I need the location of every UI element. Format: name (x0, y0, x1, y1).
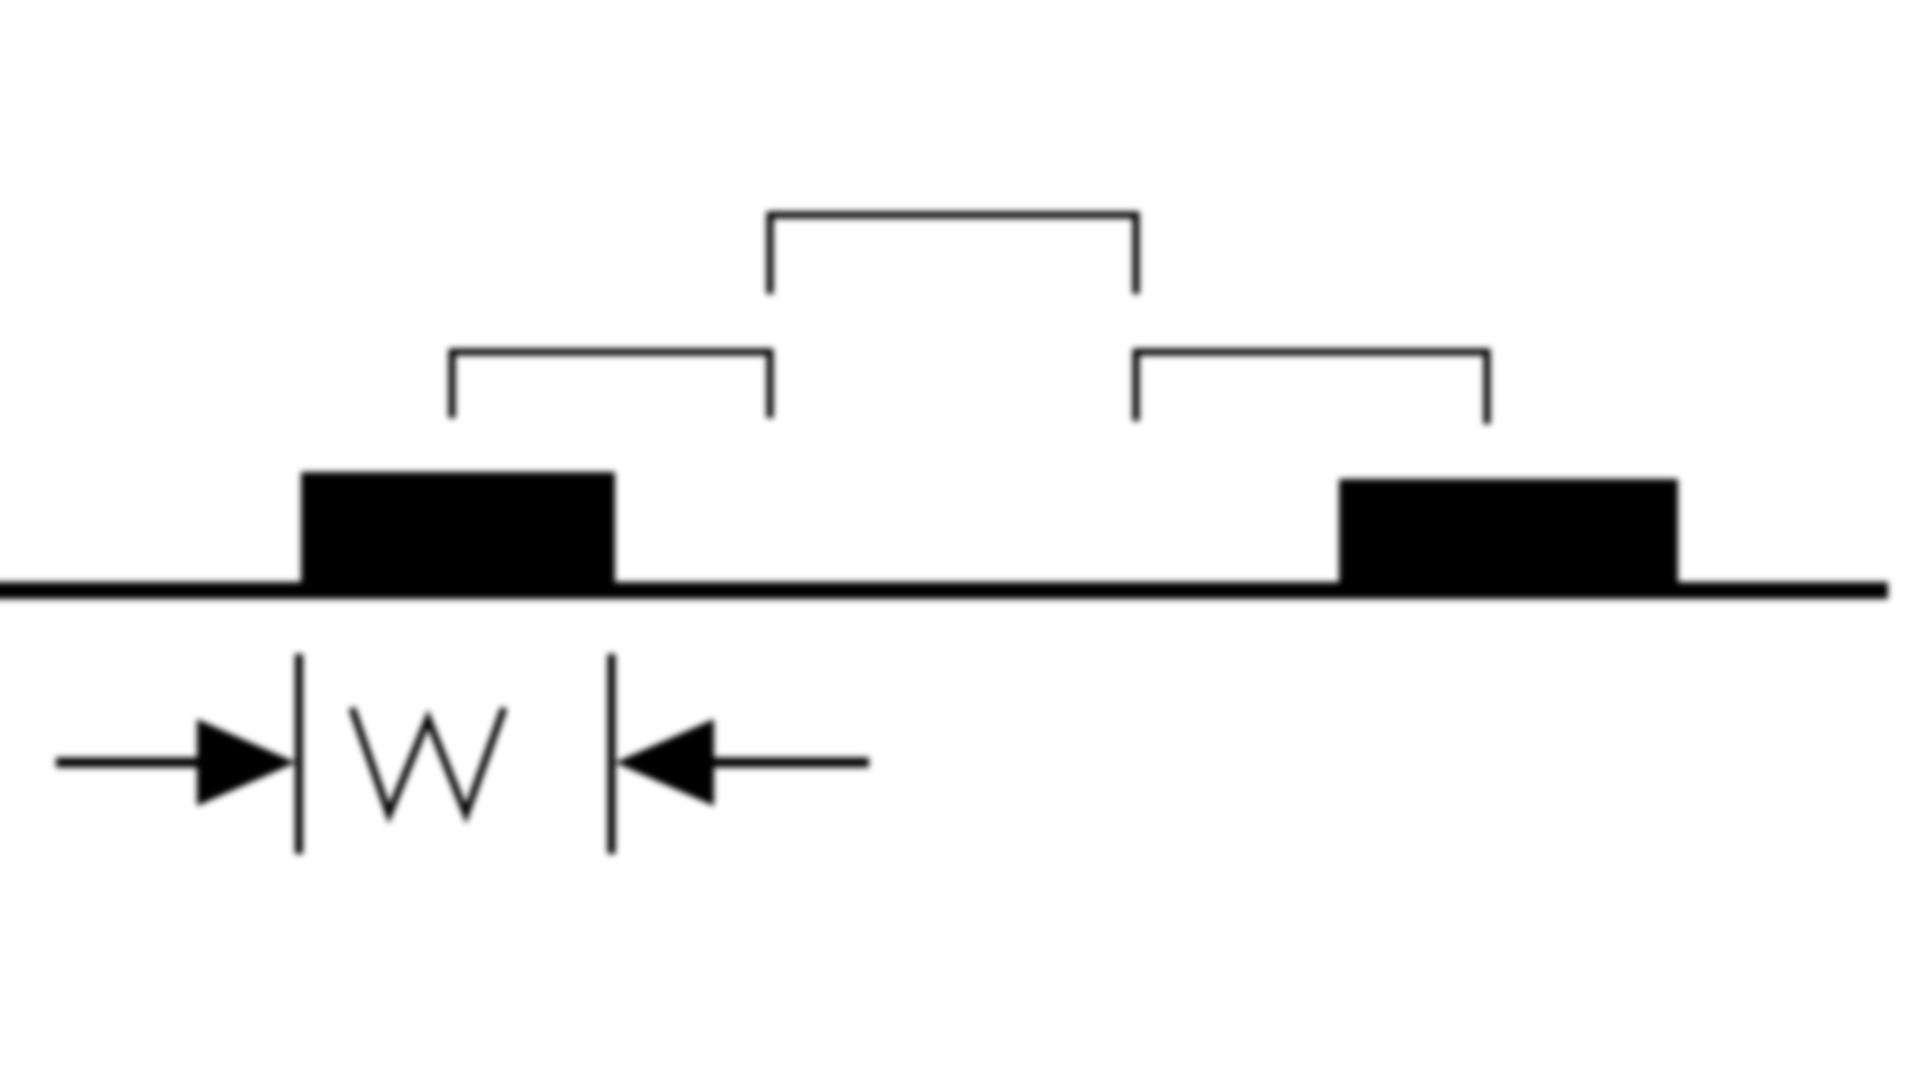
label W (352, 708, 504, 814)
right arrow shaft (697, 758, 869, 768)
dimension tick right (608, 654, 616, 854)
left arrowhead (197, 719, 296, 806)
right arrowhead (615, 719, 714, 806)
bracket B1 (top center span) (770, 215, 1136, 294)
left conductor strip (301, 472, 615, 592)
dimension tick left (295, 654, 303, 854)
left arrow shaft (56, 758, 226, 768)
ground line (substrate surface) (0, 582, 1888, 599)
bracket B3 (lower right span) (1136, 352, 1487, 424)
right conductor strip (1339, 479, 1678, 592)
bracket B2 (lower left span) (452, 352, 770, 418)
